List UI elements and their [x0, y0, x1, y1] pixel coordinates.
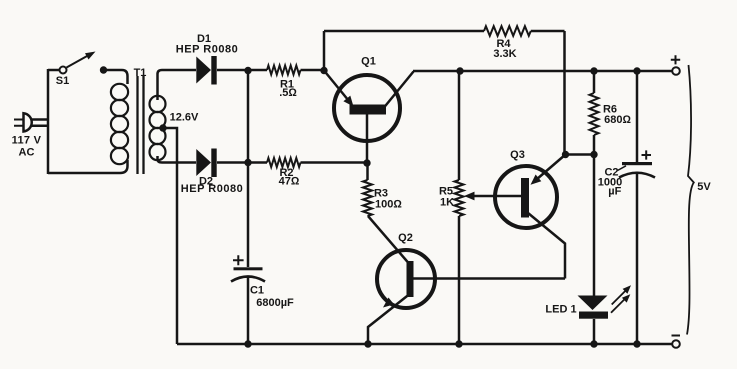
- svg-text:Q2: Q2: [398, 232, 413, 244]
- svg-text:6800µF: 6800µF: [256, 297, 294, 309]
- svg-text:.5Ω: .5Ω: [279, 87, 297, 99]
- svg-text:S1: S1: [56, 75, 69, 87]
- svg-text:12.6V: 12.6V: [170, 112, 199, 124]
- svg-text:T1: T1: [134, 67, 147, 79]
- svg-text:47Ω: 47Ω: [279, 176, 300, 188]
- svg-text:5V: 5V: [697, 181, 711, 193]
- svg-text:680Ω: 680Ω: [604, 114, 631, 126]
- svg-text:AC: AC: [19, 147, 35, 159]
- svg-text:LED 1: LED 1: [545, 304, 576, 316]
- svg-text:117 V: 117 V: [12, 134, 42, 146]
- svg-text:100Ω: 100Ω: [375, 198, 402, 210]
- svg-text:Q3: Q3: [510, 149, 525, 161]
- svg-text:HEP R0080: HEP R0080: [176, 44, 238, 56]
- svg-text:3.3K: 3.3K: [493, 48, 516, 60]
- svg-text:C1: C1: [250, 284, 264, 296]
- svg-text:1K: 1K: [440, 196, 454, 208]
- svg-text:Q1: Q1: [361, 56, 376, 68]
- svg-text:µF: µF: [608, 186, 621, 198]
- svg-text:HEP R0080: HEP R0080: [181, 183, 243, 195]
